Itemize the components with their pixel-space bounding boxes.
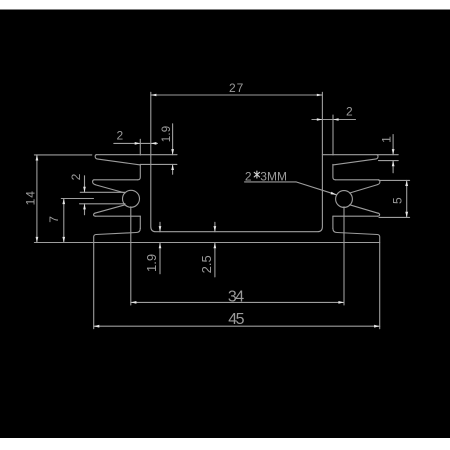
dim 1.9 bottom: lower line below base	[159, 243, 161, 274]
arrow 7 top	[62, 199, 65, 205]
arrowheads	[36, 94, 409, 328]
arrow 1.9 top-left pointing down	[171, 149, 174, 155]
label 2*3MM leader to right boss	[296, 182, 336, 195]
left fin 2 bottom edge to boss	[95, 185, 125, 193]
right fin 3 top edge from boss	[350, 205, 378, 213]
left fin 2 tip	[93, 180, 96, 185]
arrow 27 left	[151, 94, 157, 97]
arrow 1.9 bottom pointing up at base bottom	[159, 243, 162, 248]
right boss circle	[336, 191, 353, 208]
arrow 2.5 bottom pointing up at base bottom	[214, 243, 217, 248]
svg-text:1.9: 1.9	[144, 254, 159, 272]
svg-text:45: 45	[228, 311, 244, 328]
dim 45: right extension	[379, 243, 381, 329]
dim 2 mid-left: vertical dim line lower tail	[84, 204, 86, 215]
dim 2.5 bottom: lower line below base	[214, 243, 216, 277]
arrow 1 top-right pointing down	[392, 149, 395, 155]
dim 45: left extension	[93, 243, 95, 329]
dim 2.5 bottom: upper tail above floor	[214, 222, 216, 231]
arrow 2 top-left pointing right	[135, 142, 141, 145]
right wall outer face between fin1 and fin2	[333, 164, 336, 179]
dim 1.9 bottom: upper tail above floor	[159, 222, 161, 231]
svg-text:2: 2	[69, 173, 83, 181]
dim 2 top-right: extension at wall outer face	[332, 115, 334, 155]
dim 1 top-right: vertical dim line upper tail	[392, 135, 394, 155]
svg-text:2.5: 2.5	[199, 255, 214, 273]
dim 1 top-right: vertical dim line lower tail	[392, 161, 394, 173]
dim 14 left: lower extension	[34, 242, 96, 244]
profile top edge + 1.9 dim upper extension (left)	[96, 154, 177, 156]
left flange top edge and tip	[94, 228, 141, 242]
dim 2 mid-left: upper extension	[80, 191, 125, 193]
right fin 2 bottom edge to boss	[350, 185, 378, 193]
left 34 extension line from boss down	[130, 207, 132, 305]
arrow 2.5 bottom pointing down at floor	[214, 226, 217, 232]
left fin 1 (top) bottom edge and tip	[95, 155, 140, 165]
svg-text:7: 7	[47, 215, 61, 223]
right flange top edge and tip	[333, 228, 380, 242]
right 34 extension line from boss down	[343, 207, 345, 305]
svg-text:2: 2	[117, 129, 125, 143]
svg-text:34: 34	[228, 289, 244, 306]
dim 27 extension left (wall inner face up)	[150, 92, 152, 154]
left wall outer face fin3 to flange	[139, 216, 141, 228]
dim 1.9 top-left: vertical dim line lower tail	[172, 164, 174, 174]
svg-text:14: 14	[24, 190, 38, 205]
dim 7 left: dim line	[63, 199, 65, 243]
dim 2 top-right: dim line + tails	[312, 119, 356, 121]
left fin 2 top edge	[94, 179, 138, 181]
arrow 2 mid-left pointing up	[83, 204, 86, 210]
right fin 1 (top) bottom edge and tip	[333, 155, 378, 165]
arrow 5 top	[405, 180, 408, 186]
channel inner walls and floor with fillets	[151, 155, 323, 232]
dim 7 left: upper extension to boss center	[61, 198, 93, 200]
dim 5 right: dim line	[406, 180, 408, 217]
label 2*3MM star symbol	[254, 171, 259, 178]
arrow leader 2*3MM	[331, 192, 337, 195]
right fin 2 tip	[378, 180, 380, 185]
arrow 1.9 bottom pointing down at floor	[159, 226, 162, 232]
profile top edge + 1 dim upper extension (right)	[322, 154, 398, 156]
arrow 34 right	[338, 301, 344, 304]
base bottom edge	[94, 242, 380, 244]
arrow 2 top-left pointing left	[151, 142, 157, 145]
svg-text:2: 2	[245, 169, 252, 183]
label 2*3MM underline	[245, 181, 297, 183]
svg-text:5: 5	[391, 196, 405, 204]
dim 14 left: dim line	[36, 155, 38, 243]
arrow 1.9 top-left pointing up	[171, 164, 174, 170]
right wall outer face fin3 to flange	[332, 216, 334, 228]
arrow 45 right	[374, 325, 380, 328]
svg-text:1: 1	[379, 135, 393, 143]
svg-text:1.9: 1.9	[161, 126, 173, 143]
arrow 27 right	[317, 94, 323, 97]
arrow 2 mid-left pointing down	[83, 187, 86, 193]
svg-text:27: 27	[229, 81, 244, 95]
right fin 2 top edge	[335, 179, 378, 181]
dim 34: dim line	[131, 301, 344, 303]
right fin 3 bottom edge	[333, 215, 378, 217]
arrow 2 top-right pointing right	[317, 118, 323, 121]
arrow 2 top-right pointing left	[333, 118, 339, 121]
arrow 5 bottom	[405, 212, 408, 218]
left fin 3 bottom edge	[96, 215, 141, 217]
dim 14 left: upper extension	[34, 154, 91, 156]
dim 2 top-left: extension at wall outer face	[139, 139, 141, 155]
svg-text:3MM: 3MM	[260, 169, 287, 183]
dim 2 mid-left: lower extension	[80, 203, 126, 205]
left fin 3 top edge from boss	[95, 205, 125, 213]
dim 27 extension right	[321, 92, 323, 154]
dim 2 top-left: dim line + tails	[114, 142, 158, 144]
arrow 1 top-right pointing up	[392, 161, 395, 167]
dim 5 right: lower extension	[379, 216, 410, 218]
left wall outer face between fin1 and fin2	[138, 164, 141, 179]
arrow 45 left	[94, 325, 100, 328]
dim 1.9 top-left: lower extension	[140, 163, 177, 165]
dim 45: dim line	[94, 325, 380, 327]
dim 1.9 top-left: vertical dim line upper tail	[172, 124, 174, 155]
arrow 34 left	[131, 301, 137, 304]
dim 5 right: upper extension	[379, 179, 410, 181]
left fin 3 tip	[94, 213, 96, 216]
dim 27 line	[151, 94, 323, 96]
right fin 3 tip	[378, 213, 380, 216]
dim 2 mid-left: vertical dim line upper tail	[84, 176, 86, 193]
left boss circle	[123, 190, 140, 207]
arrow 7 bottom	[62, 237, 65, 243]
arrow 14 bottom	[36, 237, 39, 243]
arrow 14 top	[36, 155, 39, 161]
dim 1 top-right: lower extension	[379, 160, 399, 162]
svg-text:2: 2	[346, 105, 354, 119]
dimension texts	[24, 81, 405, 328]
